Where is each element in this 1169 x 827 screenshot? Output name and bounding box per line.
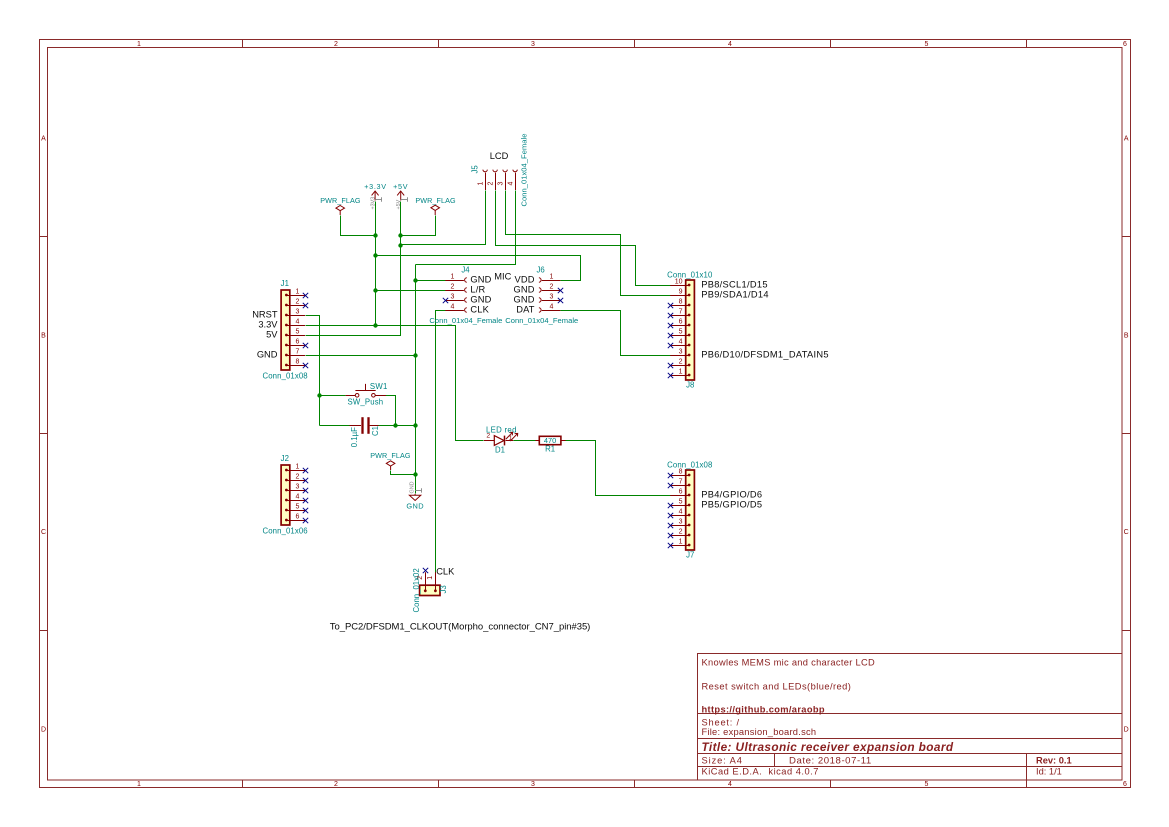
svg-text:PWR_FLAG: PWR_FLAG [320, 196, 361, 205]
svg-text:1: 1 [137, 781, 141, 788]
J3 pin 2 [417, 568, 428, 592]
J4 no-connect pin 3 [443, 298, 448, 303]
svg-text:PB9/SDA1/D14: PB9/SDA1/D14 [701, 290, 769, 300]
wire +5V rail vertical down to J1 pin5 [306, 202, 401, 336]
svg-text:GND: GND [513, 295, 534, 305]
junction SW1/C1 [393, 423, 397, 427]
svg-text:R1: R1 [545, 445, 555, 454]
svg-text:J2: J2 [281, 454, 289, 463]
svg-text:1: 1 [679, 368, 683, 375]
J2 pin 6 [285, 513, 308, 523]
svg-text:J8: J8 [686, 380, 694, 389]
svg-text:5: 5 [296, 503, 300, 510]
wire C1 left plate [320, 425, 350, 427]
J4 pin 1 (GND) [445, 273, 467, 282]
svg-text:+3.3V: +3.3V [364, 182, 386, 191]
connector J8 (Conn_01x10) body [686, 280, 695, 380]
svg-text:7: 7 [296, 348, 300, 355]
svg-text:Sheet: /: Sheet: / [702, 717, 740, 727]
svg-text:A: A [1124, 135, 1129, 142]
J6 pin 2 (GND) [539, 283, 561, 292]
connector J5 (Conn_01x04_Female) LCD [471, 133, 529, 206]
wire SW1 right down to C1 right [386, 396, 396, 426]
connector J7 (Conn_01x08) body [686, 470, 695, 550]
switch SW1 (SW_Push) [346, 382, 388, 407]
junction NRST/SW1 [317, 393, 321, 397]
J8 pin 8 [668, 298, 691, 308]
svg-text:9: 9 [679, 288, 683, 295]
svg-text:PWR_FLAG: PWR_FLAG [415, 196, 456, 205]
svg-text:1: 1 [550, 273, 554, 280]
resistor R1 (470) [535, 436, 565, 453]
svg-text:1: 1 [478, 181, 485, 185]
wire J5 pin2 to J8 pin10 [496, 191, 671, 286]
J1 pin 2 [285, 298, 308, 308]
svg-text:1: 1 [451, 273, 455, 280]
wire J6 pin4 DAT to J8 pin3 [561, 311, 671, 356]
svg-text:C: C [1124, 529, 1129, 536]
svg-text:Reset switch and LEDs(blue/red: Reset switch and LEDs(blue/red) [702, 681, 852, 691]
J6 no-connect pin 3 [558, 298, 563, 303]
J2 pin 3 [285, 483, 308, 493]
connector J3 (Conn_01x02) body [420, 585, 440, 595]
svg-text:6: 6 [296, 338, 300, 345]
svg-text:Conn_01x08: Conn_01x08 [667, 461, 712, 470]
power flag PWR_FLAG3 [370, 451, 411, 470]
connector J1 (Conn_01x08) body [281, 290, 290, 370]
J6 no-connect pin 2 [558, 288, 563, 293]
svg-text:3.3V: 3.3V [258, 320, 278, 330]
svg-text:5: 5 [925, 41, 929, 48]
wire J1 pin3 NRST down to C1 [306, 316, 320, 426]
svg-text:3: 3 [679, 518, 683, 525]
svg-text:Conn_01x06: Conn_01x06 [262, 527, 307, 536]
svg-text:8: 8 [679, 298, 683, 305]
svg-text:Date: 2018-07-11: Date: 2018-07-11 [789, 755, 872, 766]
svg-text:J5: J5 [471, 165, 480, 174]
J6 pin 3 (GND) [539, 293, 561, 302]
svg-text:MIC: MIC [494, 272, 511, 282]
wire J4 pin4 CLK down to J3 pin1 [436, 311, 446, 573]
svg-text:3: 3 [531, 781, 535, 788]
svg-text:VDD: VDD [515, 275, 535, 285]
svg-text:2: 2 [550, 283, 554, 290]
J4 pin 4 (CLK) [445, 303, 467, 312]
svg-text:6: 6 [679, 318, 683, 325]
svg-text:Conn_01x04_Female: Conn_01x04_Female [505, 316, 578, 325]
J7 pin 4 [668, 508, 691, 518]
svg-text:7: 7 [679, 478, 683, 485]
svg-text:Conn_01x04_Female: Conn_01x04_Female [429, 316, 502, 325]
junction +3.3V/PWR_FLAG [373, 233, 377, 237]
svg-text:Size: A4: Size: A4 [702, 755, 743, 765]
svg-text:5V: 5V [266, 330, 278, 340]
wire +3.3V rail to J4 pin2 L/R [376, 290, 446, 292]
power symbol +3.3V [364, 182, 386, 210]
wire PWR_FLAG1 to +3.3V rail [341, 216, 376, 236]
svg-text:4: 4 [296, 493, 300, 500]
svg-text:4: 4 [451, 303, 455, 310]
svg-text:B: B [1124, 332, 1129, 339]
J7 pin 7 [668, 478, 691, 488]
svg-text:5: 5 [679, 498, 683, 505]
svg-text:1: 1 [679, 538, 683, 545]
svg-text:6: 6 [296, 513, 300, 520]
junction PWR_FLAG/GND [413, 472, 417, 476]
svg-text:4: 4 [679, 508, 683, 515]
svg-text:3: 3 [531, 41, 535, 48]
svg-text:+5V: +5V [393, 182, 408, 191]
svg-text:CLK: CLK [436, 567, 455, 577]
svg-text:4: 4 [296, 318, 300, 325]
svg-text:PWR_FLAG: PWR_FLAG [370, 451, 411, 460]
J7 pin 2 [668, 528, 691, 538]
svg-text:8: 8 [296, 358, 300, 365]
capacitor C1 [350, 417, 380, 447]
svg-text:C1: C1 [371, 426, 380, 436]
J8 pin 2 [668, 358, 691, 368]
J8 pin 7 [668, 308, 691, 318]
J8 pin 6 [668, 318, 691, 328]
J7 pin 5 [668, 498, 691, 508]
J4 pin 2 (L/R) [445, 283, 467, 292]
junction +3.3V/L-R [373, 288, 377, 292]
LED D1 [484, 426, 518, 455]
J1 pin 8 [285, 358, 308, 368]
svg-text:Conn_01x08: Conn_01x08 [262, 372, 307, 381]
svg-text:C: C [41, 529, 46, 536]
svg-text:3: 3 [550, 293, 554, 300]
wire GND rail vertical [415, 265, 417, 494]
wire NRST node to SW1 left [320, 395, 346, 397]
J1 pin 1 [285, 288, 308, 298]
svg-text:2: 2 [679, 358, 683, 365]
svg-text:D: D [41, 726, 46, 733]
svg-text:https://github.com/araobp: https://github.com/araobp [702, 704, 825, 714]
junction C1/GND rail [413, 423, 417, 427]
svg-text:Title: Ultrasonic receiver exp: Title: Ultrasonic receiver expansion boa… [702, 740, 954, 754]
J7 pin 1 [668, 538, 691, 548]
J1 pin 3 [285, 308, 305, 316]
svg-text:J3: J3 [439, 585, 448, 593]
svg-text:2: 2 [451, 283, 455, 290]
svg-text:LED red: LED red [486, 426, 517, 435]
svg-text:3: 3 [451, 293, 455, 300]
J5 pin 2 [488, 170, 498, 190]
svg-text:D1: D1 [495, 445, 505, 454]
svg-text:3: 3 [498, 181, 505, 185]
svg-text:4: 4 [550, 303, 554, 310]
svg-text:5: 5 [925, 781, 929, 788]
svg-text:1: 1 [137, 41, 141, 48]
J2 pin 5 [285, 503, 308, 513]
svg-text:Knowles MEMS mic and character: Knowles MEMS mic and character LCD [702, 657, 875, 667]
junction +5V/PWR_FLAG [398, 233, 402, 237]
J8 pin 3 [670, 348, 690, 356]
J5 pin 3 [498, 170, 508, 190]
connector J2 (Conn_01x06) body [281, 465, 290, 525]
svg-text:PB5/GPIO/D5: PB5/GPIO/D5 [701, 500, 762, 510]
J7 pin 6 [670, 488, 690, 496]
svg-text:PB4/GPIO/D6: PB4/GPIO/D6 [701, 490, 762, 500]
svg-text:GND: GND [513, 285, 534, 295]
wire +3.3V rail vertical [375, 202, 377, 326]
J2 pin 2 [285, 473, 308, 483]
svg-text:1: 1 [296, 288, 300, 295]
J4 pin 3 (GND) [445, 293, 467, 302]
svg-text:DAT: DAT [516, 305, 535, 315]
J8 pin 4 [668, 338, 691, 348]
svg-text:SW_Push: SW_Push [348, 397, 384, 406]
J5 pin 1 [478, 170, 488, 190]
svg-text:L/R: L/R [470, 285, 485, 295]
svg-text:LCD: LCD [490, 151, 509, 161]
J8 pin 9 [670, 288, 690, 296]
J7 pin 3 [668, 518, 691, 528]
svg-text:2: 2 [296, 298, 300, 305]
svg-text:1: 1 [296, 463, 300, 470]
J1 pin 6 [285, 338, 308, 348]
J1 pin 5 [285, 328, 305, 336]
svg-text:Conn_01x10: Conn_01x10 [667, 271, 713, 280]
svg-text:4: 4 [679, 338, 683, 345]
svg-text:4: 4 [728, 41, 732, 48]
wire +3.3V rail to J6 pin1 VDD [376, 256, 581, 281]
svg-text:J7: J7 [686, 550, 694, 559]
svg-text:2: 2 [334, 781, 338, 788]
wire PWR_FLAG3 to GND rail [391, 471, 416, 475]
svg-text:GND: GND [257, 350, 278, 360]
svg-text:PB8/SCL1/D15: PB8/SCL1/D15 [701, 280, 768, 290]
svg-text:2: 2 [334, 41, 338, 48]
svg-text:File: expansion_board.sch: File: expansion_board.sch [702, 727, 817, 737]
svg-text:A: A [41, 135, 46, 142]
junction GND/J1 pin7 [413, 353, 417, 357]
svg-text:+3V3: +3V3 [370, 197, 376, 210]
wire J1 pin7 to GND rail [306, 355, 416, 357]
svg-text:Conn_01x04_Female: Conn_01x04_Female [520, 133, 529, 206]
J1 pin 4 [285, 318, 305, 326]
svg-text:Rev: 0.1: Rev: 0.1 [1036, 755, 1072, 765]
svg-text:GND: GND [470, 295, 491, 305]
svg-text:3: 3 [296, 308, 300, 315]
svg-text:SW1: SW1 [370, 382, 388, 391]
svg-text:+5V: +5V [396, 199, 402, 209]
svg-text:2: 2 [679, 528, 683, 535]
svg-text:6: 6 [679, 488, 683, 495]
svg-text:GND: GND [409, 481, 415, 493]
junction +5V/J5 pin1 [398, 243, 402, 247]
svg-text:4: 4 [508, 181, 515, 185]
svg-text:KiCad E.D.A. kicad 4.0.7: KiCad E.D.A. kicad 4.0.7 [702, 767, 819, 777]
svg-text:3: 3 [679, 348, 683, 355]
J3 pin 1 [427, 572, 437, 592]
svg-text:NRST: NRST [252, 310, 278, 320]
svg-text:PB6/D10/DFSDM1_DATAIN5: PB6/D10/DFSDM1_DATAIN5 [701, 350, 829, 360]
wire J5 pin3 to J8 pin9 [506, 191, 671, 296]
J7 pin 8 [668, 468, 691, 478]
power flag PWR_FLAG2 [415, 196, 456, 215]
svg-text:6: 6 [1123, 781, 1127, 788]
connector J4 (Conn_01x04_Female) [429, 265, 502, 325]
J5 pin 4 [508, 170, 518, 190]
svg-text:B: B [41, 332, 46, 339]
J8 pin 1 [668, 368, 691, 378]
J1 pin 7 [285, 348, 305, 356]
junction +3.3V/J1 pin4 [373, 323, 377, 327]
svg-text:D: D [1124, 726, 1129, 733]
power flag PWR_FLAG1 [320, 196, 361, 215]
svg-text:7: 7 [679, 308, 683, 315]
svg-text:Conn_01x02: Conn_01x02 [412, 568, 421, 612]
power symbol +5V [393, 182, 408, 210]
wire GND rail to J4 pin1 [416, 280, 446, 282]
wire J5 pin1 to +5V rail [401, 191, 486, 245]
wire J1 pin4 3.3V over to D1 anode [306, 326, 484, 441]
junction GND/J4 pin1 [413, 278, 417, 282]
svg-text:2: 2 [296, 473, 300, 480]
J2 pin 1 [285, 463, 308, 473]
wire PWR_FLAG2 to +5V rail [401, 216, 436, 236]
wire J5 pin4 to GND rail [416, 191, 516, 265]
J2 pin 4 [285, 493, 308, 503]
svg-text:Id: 1/1: Id: 1/1 [1036, 767, 1062, 777]
svg-text:J6: J6 [536, 265, 544, 274]
J8 pin 10 [670, 278, 690, 286]
wire C1 right plate to GND rail [379, 425, 416, 427]
svg-text:GND: GND [470, 275, 491, 285]
svg-text:5: 5 [296, 328, 300, 335]
D1 emission arrows [506, 432, 513, 439]
svg-text:To_PC2/DFSDM1_CLKOUT(Morpho_co: To_PC2/DFSDM1_CLKOUT(Morpho_connector_CN… [330, 621, 591, 632]
wire D1 cathode to R1 [514, 440, 536, 442]
J8 pin 5 [668, 328, 691, 338]
svg-text:2: 2 [488, 181, 495, 185]
ground GND [406, 481, 424, 510]
svg-text:CLK: CLK [470, 305, 489, 315]
svg-text:J4: J4 [461, 265, 470, 274]
svg-text:4: 4 [728, 781, 732, 788]
svg-text:1: 1 [427, 576, 434, 580]
J6 pin 4 (DAT) [539, 303, 561, 312]
svg-text:5: 5 [679, 328, 683, 335]
connector J6 (Conn_01x04_Female) [505, 265, 578, 325]
wire R1 to J7 pin6 [566, 441, 671, 496]
svg-text:J1: J1 [281, 279, 289, 288]
svg-text:0.1µF: 0.1µF [350, 427, 359, 447]
junction +3.3V/VDD [373, 253, 377, 257]
svg-text:GND: GND [406, 502, 424, 511]
svg-text:6: 6 [1123, 41, 1127, 48]
J6 pin 1 (VDD) [539, 273, 561, 282]
svg-text:3: 3 [296, 483, 300, 490]
